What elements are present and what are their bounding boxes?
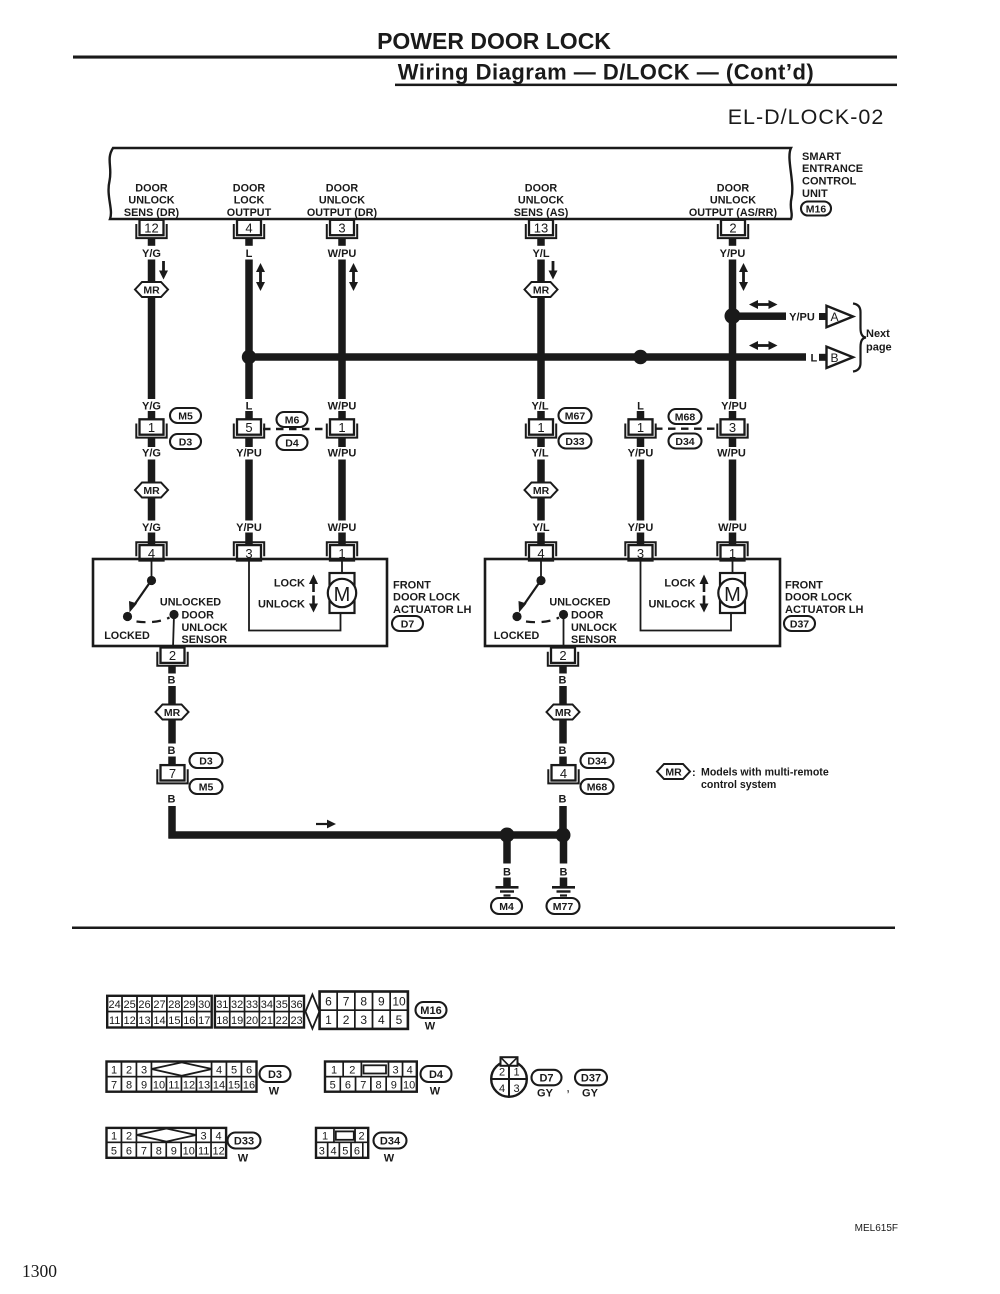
svg-text:36: 36 bbox=[290, 999, 302, 1011]
svg-text:23: 23 bbox=[290, 1015, 302, 1027]
pinout D7/D37 round connector bbox=[491, 1061, 527, 1097]
svg-text:3: 3 bbox=[360, 1013, 367, 1027]
svg-text:Models with multi-remote: Models with multi-remote bbox=[701, 767, 829, 779]
svg-text:26: 26 bbox=[138, 999, 150, 1011]
motor sub-circuit D7 bbox=[249, 560, 341, 631]
junction dot bus / branch L bbox=[633, 350, 647, 364]
motor sub-circuit D37 bbox=[641, 560, 732, 631]
contact dash D37 bbox=[526, 618, 559, 623]
svg-text:15: 15 bbox=[168, 1015, 180, 1027]
svg-text:3: 3 bbox=[141, 1064, 147, 1076]
svg-text:M5: M5 bbox=[199, 782, 214, 794]
unlocked contact D7 bbox=[169, 610, 178, 619]
pinout M16 grid right bbox=[320, 992, 338, 1011]
wire stub into actuator pin bbox=[729, 533, 737, 546]
pinout D4 bbox=[325, 1077, 340, 1092]
connector oval M5 bbox=[170, 408, 201, 423]
svg-text:Y/G: Y/G bbox=[142, 522, 161, 534]
svg-text:35: 35 bbox=[276, 999, 288, 1011]
svg-text:10: 10 bbox=[392, 995, 406, 1009]
svg-text:B: B bbox=[503, 866, 511, 878]
junction dot L / bus bbox=[242, 350, 256, 364]
svg-text:L: L bbox=[246, 248, 253, 260]
svg-text:FRONT: FRONT bbox=[785, 579, 823, 591]
MR symbol on ground wire bbox=[156, 705, 189, 720]
wire stub Y/G bbox=[148, 238, 156, 246]
svg-text:EL-D/LOCK-02: EL-D/LOCK-02 bbox=[728, 105, 885, 129]
svg-text:13: 13 bbox=[534, 221, 548, 236]
svg-text:MR: MR bbox=[555, 707, 572, 719]
svg-text:21: 21 bbox=[261, 1015, 273, 1027]
svg-text:L: L bbox=[811, 352, 818, 364]
svg-text:7: 7 bbox=[111, 1080, 117, 1092]
motor M D7 bbox=[330, 573, 355, 613]
svg-text:28: 28 bbox=[168, 999, 180, 1011]
connector id oval D7 bbox=[392, 616, 423, 631]
svg-text:SENSOR: SENSOR bbox=[182, 634, 228, 646]
svg-text:12: 12 bbox=[144, 221, 158, 236]
svg-text:UNLOCK: UNLOCK bbox=[128, 195, 174, 207]
wire stub below connector bbox=[637, 439, 645, 448]
junction dot ground M4 bbox=[500, 828, 515, 843]
svg-text:,: , bbox=[566, 1080, 570, 1095]
svg-text:27: 27 bbox=[153, 999, 165, 1011]
svg-text:14: 14 bbox=[213, 1080, 225, 1092]
svg-text:31: 31 bbox=[216, 999, 228, 1011]
wire stub below connector bbox=[338, 439, 346, 448]
svg-text:ENTRANCE: ENTRANCE bbox=[802, 163, 863, 175]
svg-text:Y/PU: Y/PU bbox=[236, 447, 262, 459]
svg-text:24: 24 bbox=[109, 999, 121, 1011]
ground wire stub bbox=[168, 757, 176, 765]
svg-text:M68: M68 bbox=[587, 782, 608, 794]
svg-text:8: 8 bbox=[375, 1080, 381, 1092]
svg-text:29: 29 bbox=[183, 999, 195, 1011]
svg-text:17: 17 bbox=[198, 1015, 210, 1027]
actuator terminal 2 D7 bbox=[157, 652, 187, 666]
svg-text:Y/PU: Y/PU bbox=[789, 311, 815, 323]
svg-text:Y/G: Y/G bbox=[142, 400, 161, 412]
wire stub below connector bbox=[537, 439, 545, 448]
svg-text:B: B bbox=[559, 793, 567, 805]
svg-text:1: 1 bbox=[637, 420, 644, 435]
svg-text:14: 14 bbox=[153, 1015, 165, 1027]
svg-text:32: 32 bbox=[231, 999, 243, 1011]
svg-text:5: 5 bbox=[342, 1145, 348, 1157]
svg-text:15: 15 bbox=[228, 1080, 240, 1092]
wire W/PU upper (unlock output DR) bbox=[338, 260, 346, 400]
svg-text:W: W bbox=[269, 1085, 280, 1097]
svg-text:M5: M5 bbox=[178, 411, 193, 423]
svg-text:3: 3 bbox=[201, 1131, 207, 1143]
double arrow over L bus bbox=[756, 344, 771, 347]
svg-text:7: 7 bbox=[360, 1080, 366, 1092]
svg-text:W: W bbox=[238, 1152, 249, 1164]
svg-text:9: 9 bbox=[141, 1080, 147, 1092]
locked contact D37 bbox=[512, 612, 521, 621]
ground oval M77 bbox=[547, 898, 580, 914]
svg-text:9: 9 bbox=[391, 1080, 397, 1092]
ground stub M4 bbox=[503, 878, 511, 887]
svg-text:13: 13 bbox=[198, 1080, 210, 1092]
svg-text:DOOR: DOOR bbox=[571, 609, 604, 621]
ground branch M4 bbox=[503, 835, 511, 864]
svg-text:B: B bbox=[560, 866, 568, 878]
pinout oval D37 bbox=[575, 1070, 607, 1086]
svg-text:5: 5 bbox=[245, 420, 252, 435]
door unlock sensor switch D37 bbox=[540, 560, 542, 578]
MR symbol on ground wire bbox=[547, 705, 580, 720]
svg-text:SMART: SMART bbox=[802, 151, 841, 163]
svg-text:POWER DOOR LOCK: POWER DOOR LOCK bbox=[377, 28, 611, 54]
svg-text:W/PU: W/PU bbox=[328, 400, 357, 412]
arrow down on Y/G bbox=[162, 261, 165, 273]
svg-text:FRONT: FRONT bbox=[393, 579, 431, 591]
inline connector terminal 1 (M5/D3) bbox=[136, 424, 166, 438]
actuator terminal 4 bbox=[526, 542, 556, 556]
svg-text:8: 8 bbox=[126, 1080, 132, 1092]
actuator terminal 4 bbox=[136, 542, 166, 556]
inline connector terminal 1 (M6/D4 side) bbox=[327, 424, 357, 438]
svg-text:control system: control system bbox=[701, 779, 776, 791]
svg-text:LOCK: LOCK bbox=[274, 577, 305, 589]
svg-text:GY: GY bbox=[537, 1087, 554, 1099]
wire stub into actuator pin bbox=[537, 533, 545, 546]
ground branch M77 bbox=[560, 835, 568, 864]
wire stub below connector bbox=[148, 439, 156, 448]
next page arrow B bbox=[819, 354, 826, 361]
svg-text:D3: D3 bbox=[199, 756, 213, 768]
svg-text:D33: D33 bbox=[565, 436, 584, 448]
svg-text:30: 30 bbox=[198, 999, 210, 1011]
svg-text:Y/G: Y/G bbox=[142, 447, 161, 459]
unit terminal 12 bbox=[136, 224, 166, 238]
svg-text:B: B bbox=[168, 793, 176, 805]
svg-text:8: 8 bbox=[360, 995, 367, 1009]
svg-text:Y/PU: Y/PU bbox=[628, 447, 654, 459]
svg-text:DOOR: DOOR bbox=[182, 609, 215, 621]
actuator box D37 bbox=[485, 559, 780, 646]
svg-text:2: 2 bbox=[126, 1131, 132, 1143]
bottom rule bbox=[72, 927, 895, 930]
svg-text:6: 6 bbox=[126, 1145, 132, 1157]
svg-text:10: 10 bbox=[153, 1080, 165, 1092]
svg-text:MR: MR bbox=[143, 285, 160, 297]
svg-text:8: 8 bbox=[156, 1145, 162, 1157]
svg-text:4: 4 bbox=[560, 766, 567, 781]
pinout oval D7 bbox=[532, 1070, 562, 1086]
inline connector terminal 5 (M6/D4) bbox=[234, 424, 264, 438]
svg-text:12: 12 bbox=[183, 1080, 195, 1092]
svg-text:3: 3 bbox=[338, 221, 345, 236]
svg-text:1: 1 bbox=[338, 420, 345, 435]
svg-text:D33: D33 bbox=[234, 1136, 254, 1148]
wire stub into connector bbox=[729, 411, 737, 420]
ground wire B below actuator bbox=[559, 667, 567, 674]
svg-text:D37: D37 bbox=[790, 619, 809, 631]
svg-text:6: 6 bbox=[246, 1064, 252, 1076]
ground wire B bbox=[559, 686, 567, 705]
svg-text:UNLOCK: UNLOCK bbox=[518, 195, 564, 207]
inline connector terminal 4 bbox=[548, 769, 578, 783]
ground wire B bbox=[559, 720, 567, 744]
svg-text:25: 25 bbox=[123, 999, 135, 1011]
svg-text:10: 10 bbox=[183, 1145, 195, 1157]
wire stub below connector bbox=[729, 439, 737, 448]
connector oval D4 bbox=[277, 435, 308, 450]
svg-text:Y/L: Y/L bbox=[531, 400, 548, 412]
unit terminal 4 bbox=[234, 224, 264, 238]
wire W/PU lower (to AS actuator) bbox=[729, 460, 737, 521]
wire Y/PU upper (unlock output AS/RR) bbox=[729, 260, 737, 400]
svg-text:Next: Next bbox=[866, 328, 890, 340]
wire Y/G upper (sens DR) bbox=[148, 260, 156, 284]
double arrow over Y/PU branch bbox=[756, 303, 771, 306]
svg-text:MR: MR bbox=[164, 707, 181, 719]
svg-text:1: 1 bbox=[111, 1131, 117, 1143]
svg-text:4: 4 bbox=[330, 1145, 336, 1157]
svg-text:2: 2 bbox=[343, 1013, 350, 1027]
unit terminal 13 bbox=[526, 224, 556, 238]
ground wire to bus bbox=[168, 806, 176, 839]
sensor wire to pin 2 D37 bbox=[563, 615, 565, 649]
unlock arrow down D7 bbox=[312, 596, 315, 606]
svg-text:ACTUATOR LH: ACTUATOR LH bbox=[785, 604, 863, 616]
svg-text:3: 3 bbox=[392, 1064, 398, 1076]
svg-text:DOOR LOCK: DOOR LOCK bbox=[393, 592, 460, 604]
wire L upper (lock output) bbox=[245, 260, 253, 400]
svg-text:M77: M77 bbox=[553, 901, 574, 913]
svg-text:DOOR: DOOR bbox=[326, 182, 359, 194]
connector oval D34 bbox=[669, 434, 702, 449]
branch wire Y/PU to next page A bbox=[736, 312, 786, 320]
svg-text:1: 1 bbox=[322, 1131, 328, 1143]
svg-text:DOOR LOCK: DOOR LOCK bbox=[785, 592, 852, 604]
ground stub M77 bbox=[560, 878, 568, 887]
wire stub into actuator pin bbox=[148, 533, 156, 546]
svg-text:5: 5 bbox=[396, 1013, 403, 1027]
svg-text:A: A bbox=[830, 310, 838, 324]
actuator terminal 2 D37 bbox=[548, 652, 578, 666]
svg-text:M68: M68 bbox=[675, 412, 696, 424]
header rule 2 bbox=[395, 84, 897, 87]
svg-text:4: 4 bbox=[216, 1064, 222, 1076]
arrow up-down on Y/PU bbox=[742, 270, 745, 284]
svg-text:UNLOCKED: UNLOCKED bbox=[160, 596, 221, 608]
svg-text:D4: D4 bbox=[285, 438, 299, 450]
svg-text:2: 2 bbox=[499, 1066, 505, 1078]
connector oval D3 bbox=[170, 434, 201, 449]
ground symbol M4 bbox=[496, 886, 519, 889]
pinout M16 key bbox=[306, 995, 320, 1029]
pinout D34 bbox=[316, 1142, 328, 1158]
svg-text:M4: M4 bbox=[499, 901, 514, 913]
contact dash D7 bbox=[137, 618, 170, 623]
svg-text:LOCKED: LOCKED bbox=[104, 630, 150, 642]
svg-text:MEL615F: MEL615F bbox=[855, 1223, 898, 1234]
pinout oval D3 bbox=[260, 1066, 291, 1082]
svg-text:2: 2 bbox=[359, 1131, 365, 1143]
lock arrow up D37 bbox=[703, 582, 706, 592]
svg-text:11: 11 bbox=[198, 1145, 209, 1157]
svg-text:Y/L: Y/L bbox=[532, 522, 549, 534]
wire Y/L lower bbox=[537, 460, 545, 484]
svg-text:22: 22 bbox=[276, 1015, 288, 1027]
svg-text:MR: MR bbox=[533, 485, 550, 497]
svg-text:13: 13 bbox=[138, 1015, 150, 1027]
svg-text:Y/L: Y/L bbox=[531, 447, 548, 459]
svg-text:9: 9 bbox=[171, 1145, 177, 1157]
svg-text:34: 34 bbox=[261, 999, 273, 1011]
svg-text:UNLOCK: UNLOCK bbox=[182, 622, 228, 634]
svg-text:1: 1 bbox=[111, 1064, 117, 1076]
next page arrow A bbox=[819, 313, 826, 320]
svg-text:ACTUATOR LH: ACTUATOR LH bbox=[393, 604, 471, 616]
svg-text::: : bbox=[692, 767, 696, 779]
svg-text:18: 18 bbox=[216, 1015, 228, 1027]
connector oval D34 bbox=[581, 753, 614, 768]
wire stub into connector bbox=[338, 411, 346, 420]
svg-text:D34: D34 bbox=[587, 756, 606, 768]
svg-text:4: 4 bbox=[407, 1064, 413, 1076]
MR symbol on Y/G lower bbox=[135, 483, 168, 498]
direction arrow on ground bus bbox=[316, 823, 327, 825]
dashed connector link M6/D4 bbox=[263, 428, 328, 430]
svg-text:M16: M16 bbox=[420, 1005, 441, 1017]
inline connector terminal 7 bbox=[157, 769, 187, 783]
svg-text:6: 6 bbox=[325, 995, 332, 1009]
svg-text:D7: D7 bbox=[539, 1073, 553, 1085]
svg-text:7: 7 bbox=[141, 1145, 147, 1157]
actuator terminal 1 bbox=[717, 542, 747, 556]
svg-text:DOOR: DOOR bbox=[135, 182, 168, 194]
svg-text:W/PU: W/PU bbox=[717, 447, 746, 459]
svg-text:UNLOCK: UNLOCK bbox=[648, 598, 695, 610]
wire stub L bbox=[245, 238, 253, 246]
ground bus wire bbox=[169, 831, 567, 839]
svg-text:7: 7 bbox=[169, 766, 176, 781]
inline connector terminal 1 (M68/D34) bbox=[625, 424, 655, 438]
arrow up-down on L bbox=[259, 270, 262, 284]
ground wire B bbox=[168, 720, 176, 744]
legend MR symbol bbox=[657, 764, 690, 779]
arrow down on Y/L bbox=[552, 261, 555, 273]
svg-text:W/PU: W/PU bbox=[328, 248, 357, 260]
actuator terminal 3 bbox=[234, 542, 264, 556]
svg-text:1: 1 bbox=[537, 420, 544, 435]
wire stub Y/PU bbox=[729, 238, 737, 246]
svg-text:1: 1 bbox=[331, 1064, 337, 1076]
svg-text:OUTPUT (DR): OUTPUT (DR) bbox=[307, 207, 378, 219]
ground wire stub bbox=[559, 757, 567, 765]
svg-text:D4: D4 bbox=[429, 1069, 444, 1081]
svg-text:D7: D7 bbox=[401, 619, 415, 631]
svg-text:UNLOCK: UNLOCK bbox=[258, 598, 305, 610]
wire Y/L below MR bbox=[537, 297, 545, 399]
svg-text:3: 3 bbox=[319, 1145, 325, 1157]
svg-text:OUTPUT: OUTPUT bbox=[227, 207, 272, 219]
actuator box D7 bbox=[93, 559, 387, 646]
svg-text:W: W bbox=[425, 1020, 436, 1032]
actuator terminal 1 bbox=[327, 542, 357, 556]
svg-text:UNLOCK: UNLOCK bbox=[571, 622, 617, 634]
svg-text:M: M bbox=[724, 584, 741, 606]
svg-text:L: L bbox=[637, 400, 644, 412]
connector id oval D37 bbox=[784, 616, 815, 631]
inline connector terminal 3 (M68/D34 side) bbox=[717, 424, 747, 438]
wire stub below connector bbox=[245, 439, 253, 448]
svg-text:M: M bbox=[334, 584, 351, 606]
svg-text:1: 1 bbox=[148, 420, 155, 435]
header rule 1 bbox=[73, 56, 897, 59]
smart entrance control unit box M16 bbox=[109, 148, 793, 219]
svg-text:UNLOCK: UNLOCK bbox=[710, 195, 756, 207]
svg-text:Y/PU: Y/PU bbox=[236, 522, 262, 534]
svg-text:1: 1 bbox=[325, 1013, 332, 1027]
svg-text:SENSOR: SENSOR bbox=[571, 634, 617, 646]
svg-text:D34: D34 bbox=[380, 1136, 401, 1148]
wire stub into actuator pin bbox=[637, 533, 645, 546]
wire stub Y/L bbox=[537, 238, 545, 246]
svg-text:2: 2 bbox=[729, 221, 736, 236]
ground symbol M77 bbox=[552, 886, 575, 889]
wire Y/PU lower (branch) bbox=[637, 460, 645, 521]
svg-text:12: 12 bbox=[123, 1015, 135, 1027]
connector oval D3 bbox=[190, 753, 223, 768]
unlocked contact D37 bbox=[559, 610, 568, 619]
svg-text:B: B bbox=[559, 674, 567, 686]
svg-text:UNLOCKED: UNLOCKED bbox=[549, 596, 610, 608]
actuator terminal 3 bbox=[625, 542, 655, 556]
wire Y/G lower bbox=[148, 460, 156, 484]
svg-text:D3: D3 bbox=[268, 1069, 282, 1081]
svg-text:16: 16 bbox=[183, 1015, 195, 1027]
wire stub into connector bbox=[148, 411, 156, 420]
svg-text:9: 9 bbox=[378, 995, 385, 1009]
svg-text:SENS (DR): SENS (DR) bbox=[124, 207, 180, 219]
svg-text:DOOR: DOOR bbox=[233, 182, 266, 194]
svg-text:1: 1 bbox=[513, 1066, 519, 1078]
svg-text:20: 20 bbox=[246, 1015, 258, 1027]
svg-text:1300: 1300 bbox=[22, 1261, 57, 1281]
svg-text:4: 4 bbox=[216, 1131, 222, 1143]
svg-text:33: 33 bbox=[246, 999, 258, 1011]
svg-text:6: 6 bbox=[345, 1080, 351, 1092]
svg-text:DOOR: DOOR bbox=[717, 182, 750, 194]
svg-text:4: 4 bbox=[499, 1083, 505, 1095]
motor M D37 bbox=[720, 573, 745, 613]
wire Y/PU lower (from 5) bbox=[245, 460, 253, 521]
svg-text:MR: MR bbox=[665, 767, 682, 779]
svg-text:7: 7 bbox=[343, 995, 350, 1009]
svg-text:16: 16 bbox=[243, 1080, 255, 1092]
ground wire B below actuator bbox=[168, 667, 176, 674]
svg-text:10: 10 bbox=[403, 1080, 415, 1092]
svg-text:GY: GY bbox=[582, 1087, 599, 1099]
svg-text:SENS (AS): SENS (AS) bbox=[514, 207, 569, 219]
svg-text:B: B bbox=[168, 745, 176, 757]
connector oval D33 bbox=[559, 434, 592, 449]
next page brace bbox=[853, 304, 866, 372]
pinout oval D34 bbox=[374, 1133, 407, 1149]
unit terminal 3 bbox=[327, 224, 357, 238]
svg-text:page: page bbox=[866, 341, 892, 353]
svg-text:W/PU: W/PU bbox=[328, 447, 357, 459]
connector oval M68 bbox=[581, 779, 614, 794]
svg-text:Y/L: Y/L bbox=[532, 248, 549, 260]
svg-text:LOCK: LOCK bbox=[234, 195, 265, 207]
pinout oval D4 bbox=[421, 1066, 452, 1082]
